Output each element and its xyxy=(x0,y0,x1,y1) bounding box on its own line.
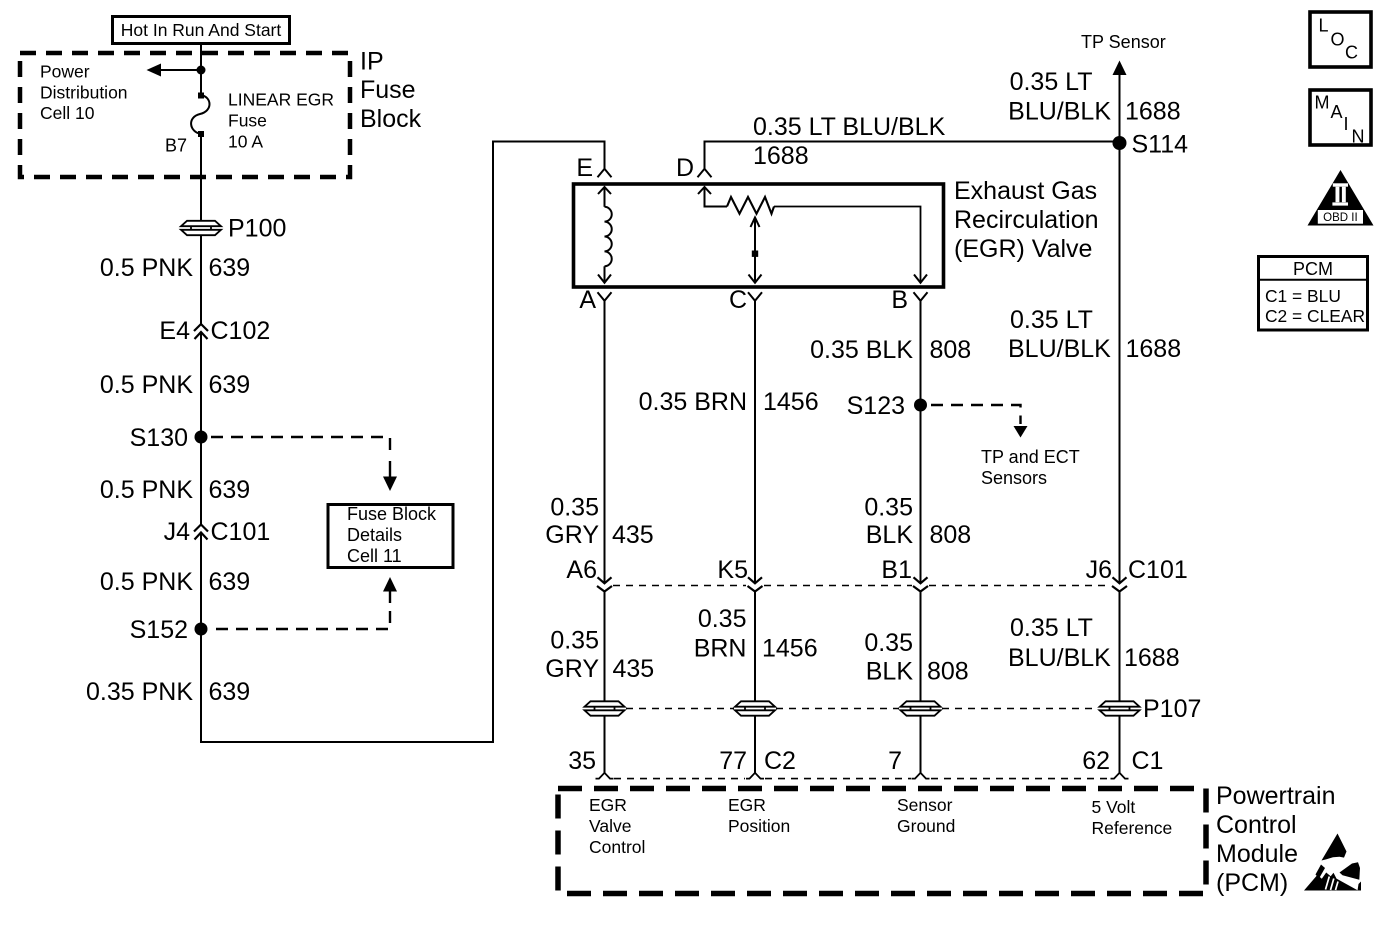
box: Exhaust Gas Recirculation (EGR) Valve xyxy=(574,184,944,287)
wire: main feed vertical from Hot box through IP fuse block xyxy=(200,43,202,95)
svg-text:BLU/BLK: BLU/BLK xyxy=(1008,335,1111,363)
svg-text:Details: Details xyxy=(347,525,402,545)
svg-text:C1 = BLU: C1 = BLU xyxy=(1265,286,1341,306)
svg-text:D: D xyxy=(676,154,694,182)
svg-text:O: O xyxy=(1331,30,1345,50)
connector C101 terminal K5 xyxy=(717,556,762,592)
svg-text:35: 35 xyxy=(568,747,596,775)
svg-text:S114: S114 xyxy=(1132,131,1189,159)
node: splice S130 xyxy=(130,424,208,452)
svg-text:C101: C101 xyxy=(211,518,271,546)
svg-text:B7: B7 xyxy=(165,136,187,156)
wire: 0.35 LT BLU/BLK 1688 from C101 to P107 xyxy=(1008,592,1180,702)
svg-text:OBD II: OBD II xyxy=(1323,212,1358,224)
pin chevron 62 xyxy=(1111,773,1129,779)
svg-text:Valve: Valve xyxy=(589,816,631,836)
pin E of EGR valve (male terminal) xyxy=(576,154,611,182)
svg-text:BLU/BLK: BLU/BLK xyxy=(1008,98,1111,126)
coil L: EGR solenoid winding E to A xyxy=(598,187,612,283)
box: Hot In Run And Start xyxy=(113,17,290,44)
svg-text:P107: P107 xyxy=(1143,695,1201,723)
node: splice S123 xyxy=(847,392,927,420)
connector P107 lens on LT BLU/BLK wire xyxy=(1100,695,1202,723)
svg-text:C2 = CLEAR: C2 = CLEAR xyxy=(1265,306,1365,326)
svg-text:0.35: 0.35 xyxy=(698,605,747,633)
label: Power Distribution Cell 10 xyxy=(40,62,128,124)
wire: TP Sensor feed arrow at top xyxy=(1008,32,1180,583)
svg-text:Control: Control xyxy=(1216,811,1297,839)
svg-text:5 Volt: 5 Volt xyxy=(1092,797,1136,817)
svg-text:Power: Power xyxy=(40,62,90,82)
box: Powertrain Control Module PCM (dashed) xyxy=(558,789,1206,894)
box: IP Fuse Block (dashed) xyxy=(20,53,350,177)
node: power distribution tap junction xyxy=(197,66,206,75)
svg-text:Module: Module xyxy=(1216,840,1298,868)
svg-text:TP Sensor: TP Sensor xyxy=(1081,32,1166,52)
svg-text:PCM: PCM xyxy=(1293,259,1333,279)
wire: 0.5 PNK 639 segment S130 to C101 xyxy=(100,476,250,504)
svg-text:639: 639 xyxy=(209,678,251,706)
connector C102 terminal E4 xyxy=(159,317,270,345)
wire: dashed reference from S123 to TP and ECT Sensors xyxy=(931,405,1080,488)
svg-text:0.35: 0.35 xyxy=(864,629,913,657)
connector P107 lens on GRY wire xyxy=(585,701,625,715)
connector P107 lens on BRN wire xyxy=(735,701,775,715)
svg-text:J6: J6 xyxy=(1086,556,1112,584)
connector C101 terminal A6 xyxy=(566,556,612,592)
svg-text:C2: C2 xyxy=(764,747,796,775)
svg-text:808: 808 xyxy=(930,521,972,549)
icon: PCM connector color legend xyxy=(1259,257,1368,331)
svg-text:N: N xyxy=(1352,127,1365,147)
icon: LOC legend box xyxy=(1310,12,1371,67)
svg-text:0.35 LT BLU/BLK: 0.35 LT BLU/BLK xyxy=(753,113,946,141)
label: 5 Volt Reference xyxy=(1092,797,1173,838)
wire: 0.35 BRN 1456 from pin C to C101 xyxy=(639,301,819,584)
svg-text:S152: S152 xyxy=(130,616,188,644)
pin chevron 7 xyxy=(912,773,930,779)
svg-text:K5: K5 xyxy=(717,556,748,584)
svg-text:639: 639 xyxy=(209,476,251,504)
svg-text:0.35 BLK: 0.35 BLK xyxy=(810,336,913,364)
svg-text:J4: J4 xyxy=(164,518,191,546)
connector row into PCM (dashed with pin chevrons) xyxy=(614,778,1109,780)
svg-text:0.35: 0.35 xyxy=(864,494,913,522)
svg-text:Cell 10: Cell 10 xyxy=(40,103,95,123)
svg-text:Position: Position xyxy=(728,816,790,836)
svg-text:0.35 BRN: 0.35 BRN xyxy=(639,388,747,416)
svg-text:77: 77 xyxy=(719,747,747,775)
svg-text:C1: C1 xyxy=(1132,747,1164,775)
svg-text:1456: 1456 xyxy=(762,635,818,663)
svg-text:S123: S123 xyxy=(847,392,905,420)
svg-text:C: C xyxy=(1345,43,1358,63)
svg-text:Recirculation: Recirculation xyxy=(954,206,1099,234)
svg-text:0.35 LT: 0.35 LT xyxy=(1010,306,1093,334)
label: EGR Position xyxy=(728,795,790,836)
svg-text:Fuse: Fuse xyxy=(360,76,416,104)
svg-text:1688: 1688 xyxy=(1124,644,1180,672)
svg-text:C101: C101 xyxy=(1128,556,1188,584)
svg-text:L: L xyxy=(1319,16,1329,36)
svg-text:639: 639 xyxy=(209,371,251,399)
svg-text:C: C xyxy=(729,286,747,314)
svg-text:0.35 PNK: 0.35 PNK xyxy=(86,678,193,706)
svg-text:GRY: GRY xyxy=(545,655,599,683)
svg-text:E: E xyxy=(576,154,593,182)
wire: 0.35 BLK 808 from pin B to S123 xyxy=(810,301,971,584)
wire: fuse output down to connector P100 xyxy=(200,134,202,221)
svg-text:Powertrain: Powertrain xyxy=(1216,782,1336,810)
svg-text:EGR: EGR xyxy=(589,795,627,815)
svg-text:BLU/BLK: BLU/BLK xyxy=(1008,644,1111,672)
svg-text:7: 7 xyxy=(888,747,902,775)
icon: OBD II triangle xyxy=(1308,170,1374,226)
fuse F: LINEAR EGR Fuse 10 A xyxy=(191,93,209,138)
pin D of EGR valve (male terminal) xyxy=(676,154,712,182)
svg-text:A: A xyxy=(1331,102,1343,122)
svg-text:Reference: Reference xyxy=(1092,818,1173,838)
pin chevron 35 xyxy=(596,773,614,779)
svg-text:1456: 1456 xyxy=(763,388,819,416)
connector P107 row (dashed line) xyxy=(626,708,1098,710)
wire: 0.35 PNK 639 segment S152 down and across to EGR valve pin E xyxy=(86,142,605,743)
wire: P107 to PCM pin 62 xyxy=(1082,716,1163,775)
wiper arm of potentiometer to pin C xyxy=(749,218,762,284)
svg-text:435: 435 xyxy=(612,521,654,549)
svg-text:0.5 PNK: 0.5 PNK xyxy=(100,568,193,596)
svg-text:Sensor: Sensor xyxy=(897,795,953,815)
node: splice S152 xyxy=(130,616,208,644)
pin chevron 77 xyxy=(746,773,764,779)
wire: 0.5 PNK 639 segment C101 to S152 xyxy=(100,533,250,630)
svg-text:808: 808 xyxy=(930,336,972,364)
svg-text:Exhaust Gas: Exhaust Gas xyxy=(954,177,1097,205)
svg-text:E4: E4 xyxy=(159,317,190,345)
svg-text:0.5 PNK: 0.5 PNK xyxy=(100,371,193,399)
svg-text:(PCM): (PCM) xyxy=(1216,869,1288,897)
svg-text:Cell 11: Cell 11 xyxy=(347,546,402,566)
pin C of EGR valve (female terminal) xyxy=(729,286,762,314)
svg-text:BLK: BLK xyxy=(866,658,914,686)
label: LINEAR EGR Fuse 10 A xyxy=(228,90,334,152)
svg-text:S130: S130 xyxy=(130,424,188,452)
svg-text:62: 62 xyxy=(1082,747,1110,775)
svg-text:Fuse Block: Fuse Block xyxy=(347,504,437,524)
svg-text:B: B xyxy=(891,286,908,314)
svg-text:Block: Block xyxy=(360,105,422,133)
connector P100 (in-line) xyxy=(181,215,286,243)
svg-text:1688: 1688 xyxy=(1125,98,1181,126)
wire: 0.5 PNK 639 segment P100 to C102 xyxy=(100,236,250,324)
svg-text:GRY: GRY xyxy=(545,521,599,549)
resistor R: EGR position sense potentiometer xyxy=(698,187,927,283)
svg-text:Distribution: Distribution xyxy=(40,83,128,103)
svg-text:639: 639 xyxy=(209,254,251,282)
connector C101 terminal B1 xyxy=(881,556,928,592)
box: Fuse Block Details Cell 11 xyxy=(328,504,453,568)
svg-text:Control: Control xyxy=(589,837,645,857)
connector C101 row (dashed bulkhead line) xyxy=(613,585,1110,587)
svg-text:I: I xyxy=(1344,114,1349,134)
wire: dashed reference from S130 to Fuse Block Details xyxy=(211,437,397,491)
svg-text:Fuse: Fuse xyxy=(228,111,267,131)
label: IP Fuse Block xyxy=(360,48,422,134)
pin B of EGR valve (female terminal) xyxy=(891,286,927,314)
icon: MAIN legend box xyxy=(1310,90,1371,147)
svg-text:Ground: Ground xyxy=(897,816,955,836)
label: Exhaust Gas Recirculation (EGR) Valve xyxy=(954,177,1099,263)
svg-text:808: 808 xyxy=(927,658,969,686)
wire: 0.35 BRN 1456 from C101 to P107 xyxy=(694,592,818,702)
wire: 0.35 BLK 808 from C101 to P107 xyxy=(864,592,968,702)
label: Sensor Ground xyxy=(897,795,955,836)
svg-text:10 A: 10 A xyxy=(228,132,263,152)
svg-text:TP and ECT: TP and ECT xyxy=(981,447,1080,467)
wire: P107 to PCM pin 7 xyxy=(888,716,920,775)
label: Powertrain Control Module (PCM) xyxy=(1216,782,1336,897)
pin A of EGR valve (female terminal) xyxy=(579,286,611,314)
svg-text:A: A xyxy=(579,286,596,314)
wire: P107 to PCM pin 35 xyxy=(568,716,604,775)
svg-text:Sensors: Sensors xyxy=(981,468,1047,488)
svg-text:LINEAR EGR: LINEAR EGR xyxy=(228,90,334,110)
label: 0.35 BLK 808 above C101 on B wire xyxy=(864,494,971,550)
wire: 0.5 PNK 639 segment C102 to S130 xyxy=(100,332,250,525)
svg-text:0.35 LT: 0.35 LT xyxy=(1010,614,1093,642)
label: EGR Valve Control xyxy=(589,795,645,857)
svg-text:IP: IP xyxy=(360,48,384,76)
svg-text:C102: C102 xyxy=(211,317,271,345)
svg-text:0.5 PNK: 0.5 PNK xyxy=(100,476,193,504)
svg-text:BLK: BLK xyxy=(866,521,914,549)
wire: 0.35 LT BLU/BLK 1688 below S114 xyxy=(1008,306,1181,363)
node: splice S114 xyxy=(1113,131,1189,159)
svg-text:0.35 LT: 0.35 LT xyxy=(1010,68,1093,96)
wire: 0.35 GRY 435 from pin A to C101 xyxy=(545,301,653,584)
svg-text:A6: A6 xyxy=(566,556,597,584)
wire: P107 to PCM pin 77 xyxy=(719,716,796,775)
svg-text:M: M xyxy=(1315,93,1330,113)
svg-text:639: 639 xyxy=(209,568,251,596)
icon: ESD sensitive device symbol xyxy=(1304,834,1361,891)
svg-text:1688: 1688 xyxy=(1126,335,1182,363)
wire: dashed reference from S152 to Fuse Block Details xyxy=(211,577,397,629)
svg-text:0.5 PNK: 0.5 PNK xyxy=(100,254,193,282)
wire: 0.35 LT BLU/BLK 1688 from pin D to S114 xyxy=(705,113,1120,170)
svg-text:BRN: BRN xyxy=(694,635,747,663)
connector C101 terminal J4 xyxy=(164,518,271,546)
svg-text:Hot In Run And Start: Hot In Run And Start xyxy=(121,20,282,40)
wire: 0.35 GRY 435 from C101 to P107 xyxy=(545,592,654,702)
svg-text:0.35: 0.35 xyxy=(550,627,599,655)
svg-text:P100: P100 xyxy=(228,215,286,243)
svg-text:EGR: EGR xyxy=(728,795,766,815)
svg-text:0.35: 0.35 xyxy=(550,494,599,522)
svg-text:(EGR) Valve: (EGR) Valve xyxy=(954,235,1092,263)
svg-text:435: 435 xyxy=(613,655,655,683)
svg-text:1688: 1688 xyxy=(753,142,809,170)
wire: arrow to Power Distribution Cell 10 xyxy=(147,64,202,77)
connector C101 terminal J6 xyxy=(1086,556,1188,592)
svg-text:B1: B1 xyxy=(881,556,912,584)
connector P107 lens on BLK wire xyxy=(901,701,941,715)
